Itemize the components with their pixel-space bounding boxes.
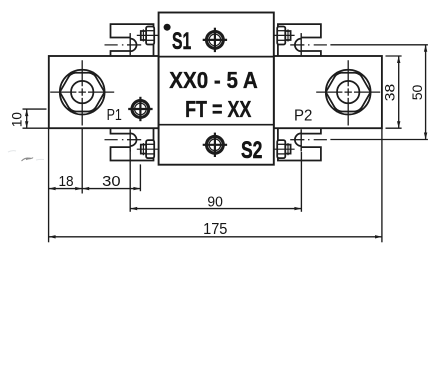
svg-text:38: 38 xyxy=(381,84,397,102)
svg-text:10: 10 xyxy=(10,112,25,127)
svg-text:P1: P1 xyxy=(107,107,122,124)
svg-text:30: 30 xyxy=(102,174,120,190)
svg-text:FT = XX: FT = XX xyxy=(185,96,252,122)
svg-text:175: 175 xyxy=(203,221,227,238)
svg-text:18: 18 xyxy=(59,174,74,190)
svg-text:S2: S2 xyxy=(241,137,262,164)
svg-text:50: 50 xyxy=(409,84,425,100)
svg-text:S1: S1 xyxy=(172,28,191,55)
svg-text:XX0 - 5 A: XX0 - 5 A xyxy=(169,67,258,93)
svg-text:90: 90 xyxy=(207,194,223,210)
svg-text:P2: P2 xyxy=(294,108,312,125)
